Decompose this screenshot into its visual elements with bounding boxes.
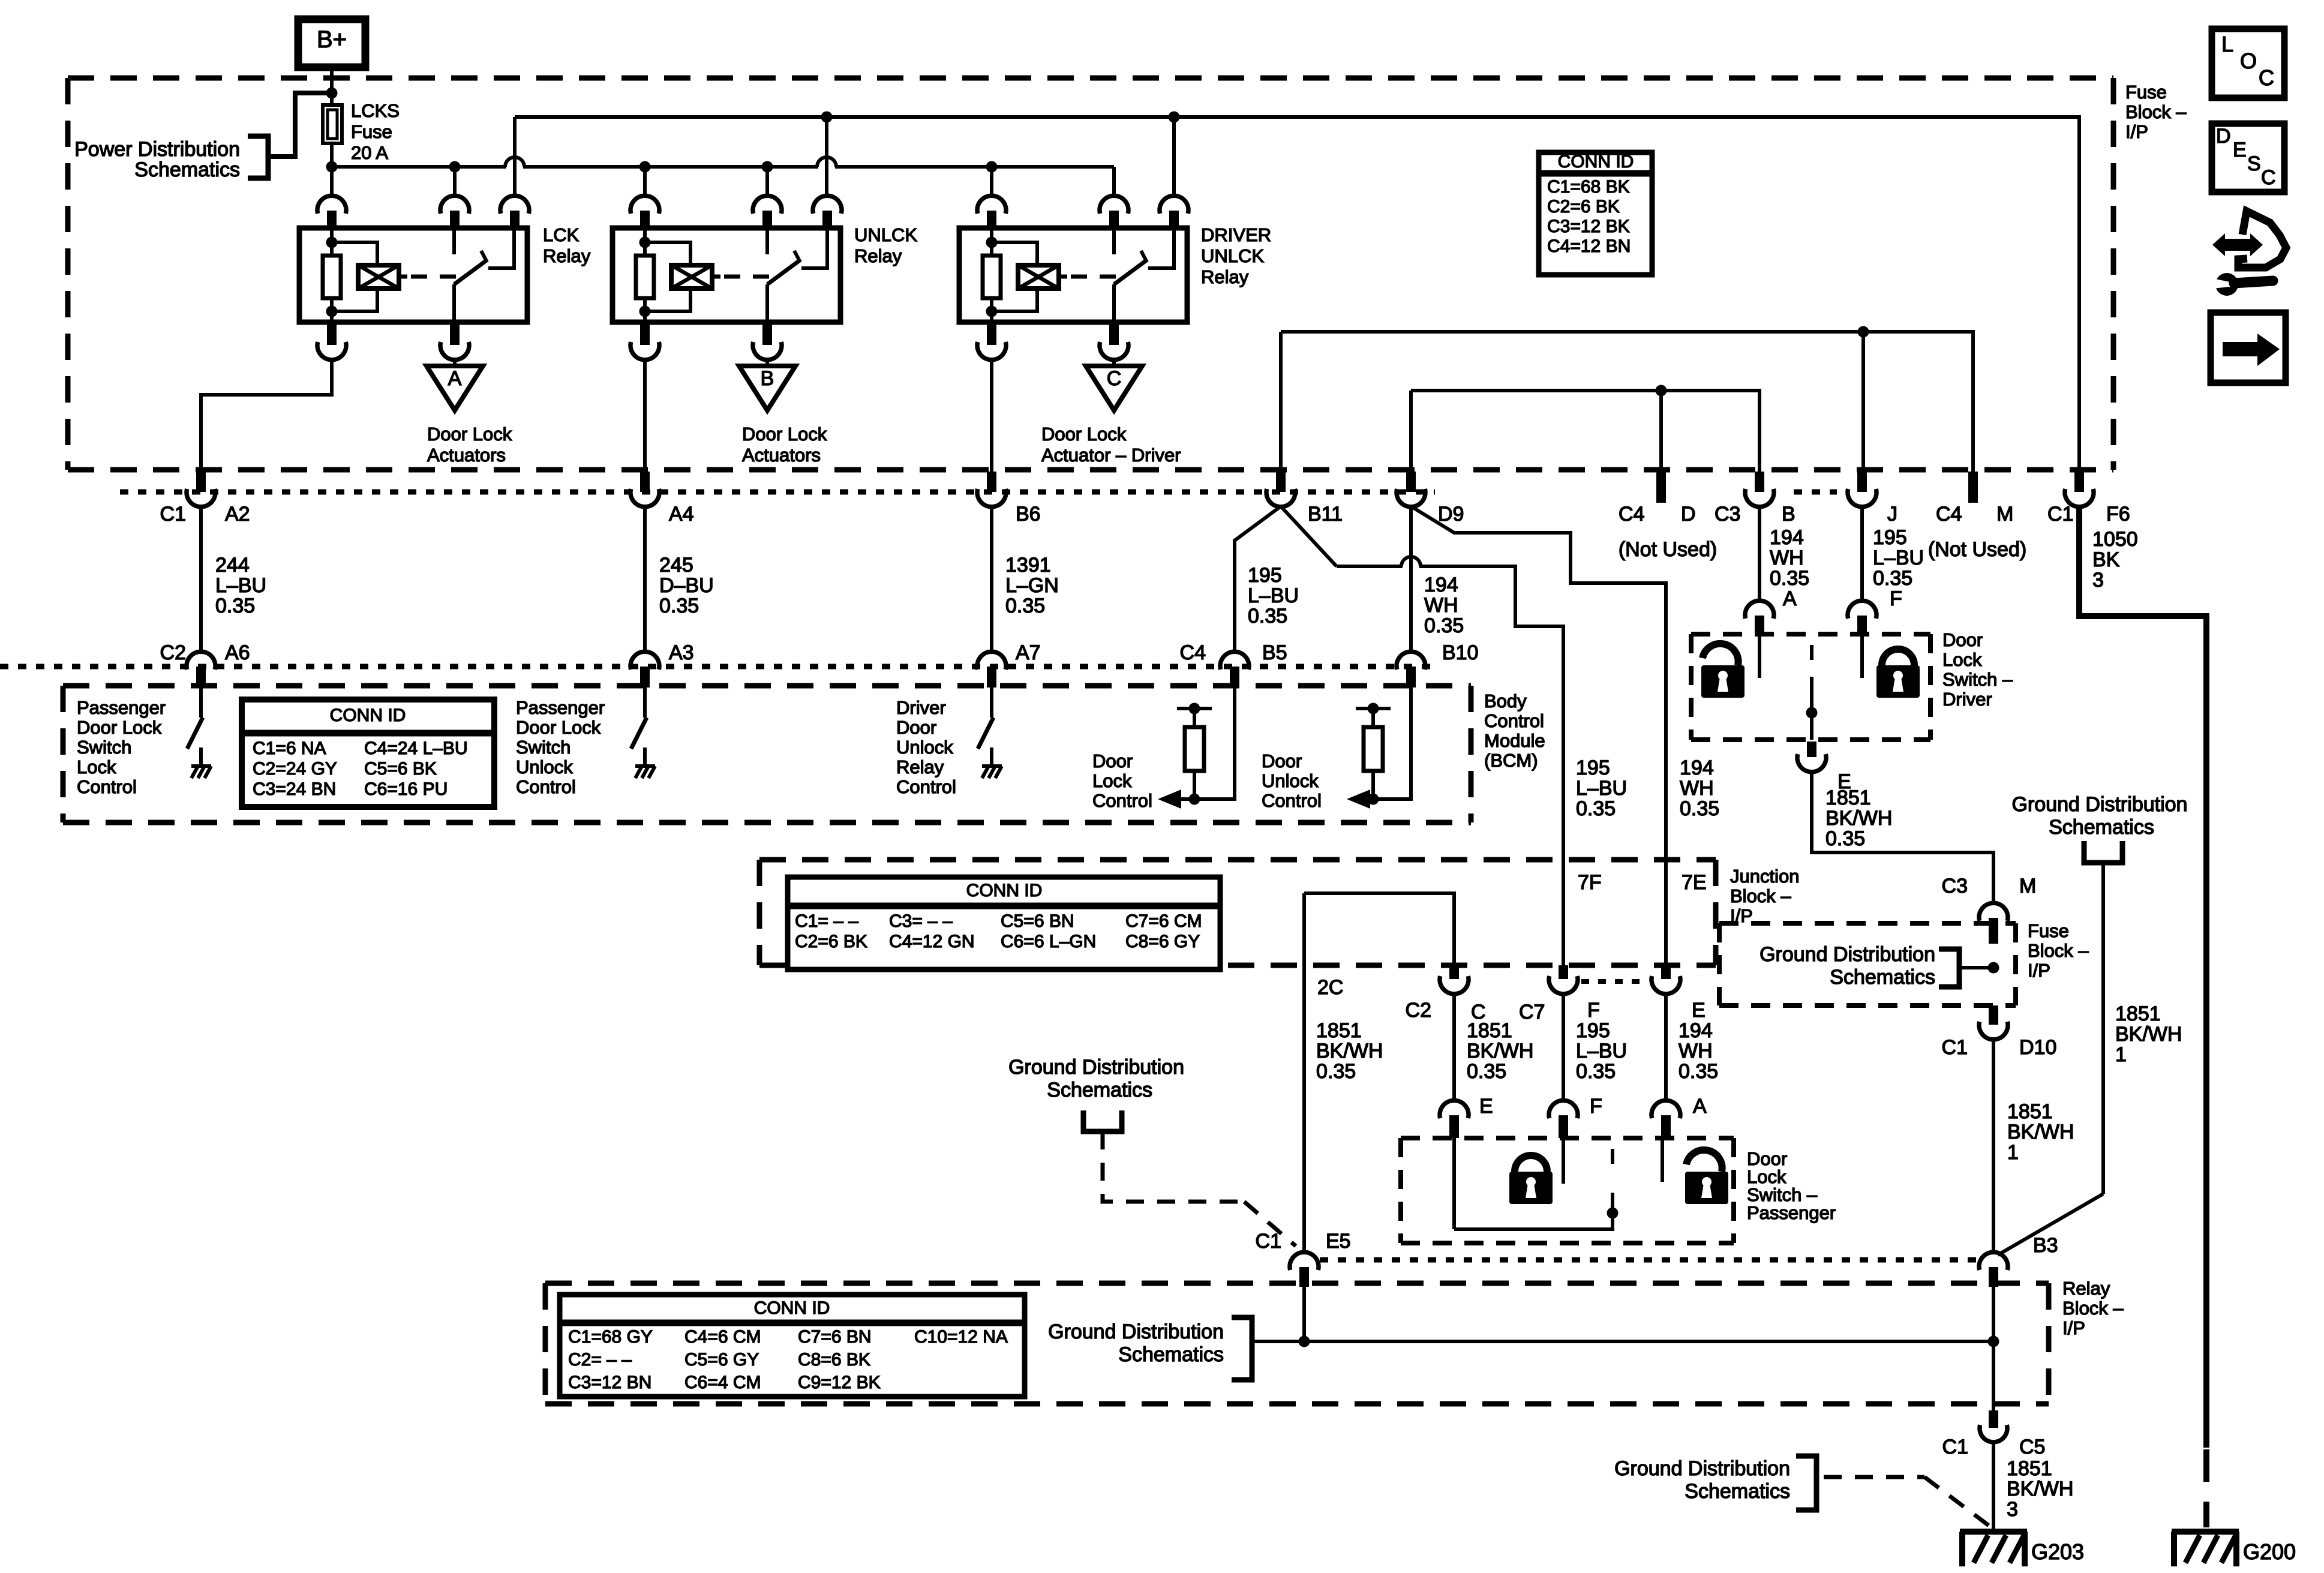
svg-text:195: 195 <box>1576 1019 1610 1042</box>
svg-text:Control: Control <box>516 776 576 797</box>
svg-text:C7=6 CM: C7=6 CM <box>1125 911 1202 931</box>
B+ battery feed terminal <box>298 19 365 67</box>
relay block internal ground bus <box>1252 1340 1993 1343</box>
Junction Block - I/P dashed box <box>759 857 1716 863</box>
connector C3 pin M <box>1979 903 2008 921</box>
svg-text:A4: A4 <box>669 503 694 526</box>
svg-text:0.35: 0.35 <box>215 595 255 617</box>
svg-text:L: L <box>2221 32 2233 56</box>
svg-text:195: 195 <box>1248 564 1282 587</box>
svg-text:C7: C7 <box>1519 1001 1545 1023</box>
BCM door unlock control output with resistor <box>1409 688 1413 799</box>
svg-text:Block –: Block – <box>1730 885 1791 906</box>
svg-text:C5=6 GY: C5=6 GY <box>684 1350 759 1370</box>
svg-text:L–BU: L–BU <box>1873 547 1924 569</box>
passenger switch connector pin F <box>1549 1100 1578 1118</box>
svg-text:C1: C1 <box>160 503 186 526</box>
svg-text:Control: Control <box>1092 790 1152 811</box>
relay mechanical linkage (dashed) <box>724 275 770 279</box>
svg-text:C9=12 BK: C9=12 BK <box>798 1373 881 1392</box>
svg-text:245: 245 <box>659 554 693 577</box>
connector pin A3 <box>630 652 659 670</box>
wire 1851 BK/WH D10 to relay block B3 <box>1992 1039 1995 1253</box>
relay mechanical linkage (dashed) <box>1071 275 1116 279</box>
wire 1851 BK/WH C2 to passenger switch E <box>1452 993 1456 1101</box>
wire B3 through relay block to C5 <box>1992 1287 1995 1410</box>
relay box LCK <box>299 228 527 322</box>
padlock icon unlocked (passenger) <box>1686 1150 1722 1172</box>
relay coil branch wiring <box>643 230 647 242</box>
svg-text:3: 3 <box>2007 1498 2018 1521</box>
wire 1050 BK F6 to G200 <box>2079 506 2206 1448</box>
dotted connector row between junction pins <box>1581 979 1649 984</box>
relay pin connectors (top row) <box>317 196 346 214</box>
connector triangle B to door lock actuators <box>765 359 769 366</box>
svg-text:UNLCK: UNLCK <box>854 224 917 245</box>
svg-text:0.35: 0.35 <box>1005 595 1045 617</box>
svg-text:C2: C2 <box>160 641 186 664</box>
svg-text:BK/WH: BK/WH <box>2007 1478 2073 1500</box>
svg-text:L–GN: L–GN <box>1005 574 1059 597</box>
wire 194 WH B to driver switch A <box>1758 506 1761 602</box>
svg-text:Passenger: Passenger <box>77 697 166 718</box>
relay coil resistor <box>643 242 647 256</box>
svg-text:Fuse: Fuse <box>351 121 392 142</box>
CONN ID table (relay block) <box>560 1295 1025 1397</box>
svg-text:BK/WH: BK/WH <box>1467 1040 1533 1062</box>
svg-text:C2= – –: C2= – – <box>568 1350 632 1370</box>
svg-text:Schematics: Schematics <box>2049 816 2154 839</box>
svg-text:244: 244 <box>215 554 250 577</box>
connector pin B with wire 194 WH <box>1755 472 1764 492</box>
svg-text:C4=12 GN: C4=12 GN <box>889 932 975 951</box>
svg-text:BK/WH: BK/WH <box>1825 807 1892 830</box>
svg-text:BK/WH: BK/WH <box>2007 1121 2074 1143</box>
svg-text:O: O <box>2240 49 2257 73</box>
svg-text:Power Distribution: Power Distribution <box>74 138 240 161</box>
svg-text:Passenger: Passenger <box>1747 1202 1836 1223</box>
icon forward-arrow box <box>2211 313 2286 383</box>
wire 195 L-BU J to driver switch F <box>1860 506 1864 602</box>
svg-text:C5=6 BK: C5=6 BK <box>364 759 437 779</box>
svg-text:A: A <box>448 367 462 390</box>
wire 1851 BK/WH 1 from ground distribution to B3 <box>2101 863 2105 1194</box>
svg-text:3: 3 <box>2092 569 2104 592</box>
svg-text:F6: F6 <box>2106 503 2130 526</box>
svg-text:(Not Used): (Not Used) <box>1619 538 1717 561</box>
svg-text:L–BU: L–BU <box>1576 1040 1627 1062</box>
svg-text:C4: C4 <box>1936 503 1962 526</box>
relay bottom pin connectors <box>327 322 337 345</box>
svg-text:Ground Distribution: Ground Distribution <box>1759 943 1935 966</box>
svg-text:CONN ID: CONN ID <box>1558 152 1634 172</box>
svg-text:UNLCK: UNLCK <box>1201 245 1264 266</box>
svg-text:Block –: Block – <box>2028 940 2089 961</box>
svg-text:J: J <box>1887 503 1897 526</box>
svg-text:M: M <box>1996 503 2013 526</box>
wire B11 branch to junction block 7F <box>1281 506 1337 566</box>
svg-text:C3=12 BK: C3=12 BK <box>1547 217 1630 236</box>
svg-text:LCKS: LCKS <box>351 100 400 121</box>
svg-text:0.35: 0.35 <box>1576 1060 1616 1083</box>
svg-text:Control: Control <box>77 776 137 797</box>
not-used stub pin M <box>1968 472 1978 503</box>
svg-text:B5: B5 <box>1262 641 1287 664</box>
wire 1851 BK/WH driver switch E to fuse block M <box>1812 772 1993 903</box>
svg-text:Ground Distribution: Ground Distribution <box>1008 1056 1184 1079</box>
connector C1 pin D10 <box>1989 1005 1998 1025</box>
svg-text:A: A <box>1693 1095 1707 1118</box>
svg-text:C4: C4 <box>1180 641 1206 664</box>
svg-text:Junction: Junction <box>1730 866 1799 887</box>
Relay Block - I/P dashed box <box>545 1281 2049 1286</box>
svg-text:Fuse: Fuse <box>2125 82 2167 103</box>
connector C1 pin E5 <box>1290 1252 1319 1270</box>
svg-text:Door Lock: Door Lock <box>742 424 827 445</box>
svg-text:Switch: Switch <box>516 737 571 758</box>
wire fused feed bus to relay coils and switch feeds <box>326 161 338 173</box>
crossover hop where relay NO-feed crosses fused bus <box>505 157 524 167</box>
svg-text:F: F <box>1587 999 1600 1022</box>
svg-text:C1= – –: C1= – – <box>795 911 858 931</box>
passenger switch connector pin A <box>1652 1100 1680 1118</box>
switch to ground: Passenger unlock switch <box>643 688 647 718</box>
svg-text:Ground Distribution: Ground Distribution <box>1048 1320 1224 1343</box>
svg-text:C1=68 GY: C1=68 GY <box>568 1327 653 1347</box>
svg-text:I/P: I/P <box>2062 1317 2085 1338</box>
wire 245 D-BU A4 to A3 <box>643 506 647 651</box>
Fuse Block - I/P dashed boundary box <box>68 76 2113 81</box>
CONN ID table (fuse block) <box>1539 152 1652 275</box>
junction block internal bus 2C to C2 <box>1304 893 1454 966</box>
svg-text:Relay: Relay <box>854 245 902 266</box>
Door Lock Switch - Passenger dashed box <box>1401 1136 1734 1140</box>
wire D9 up and across to D and B <box>1411 391 1759 472</box>
svg-text:(BCM): (BCM) <box>1484 750 1538 771</box>
Door Lock Switch - Driver dashed box <box>1691 632 1930 637</box>
wire 194 WH D9 to B10 <box>1409 506 1413 651</box>
svg-text:A7: A7 <box>1016 641 1041 664</box>
svg-text:CONN ID: CONN ID <box>330 706 406 725</box>
svg-text:WH: WH <box>1770 547 1804 569</box>
Fuse Block - I/P small dashed box <box>1719 921 2016 926</box>
svg-text:C2=6 BK: C2=6 BK <box>795 932 867 951</box>
BCM door lock control output with resistor <box>1233 688 1236 799</box>
svg-text:C1=68 BK: C1=68 BK <box>1547 177 1630 197</box>
svg-text:Relay: Relay <box>896 757 944 778</box>
svg-text:F: F <box>1590 1095 1602 1118</box>
driver switch common connector pin E <box>1807 742 1816 757</box>
svg-text:BK: BK <box>2092 548 2120 571</box>
svg-text:0.35: 0.35 <box>1248 605 1287 628</box>
svg-text:C3: C3 <box>1942 875 1968 897</box>
svg-text:0.35: 0.35 <box>1679 1060 1718 1083</box>
not-used stub pin D <box>1656 472 1666 503</box>
passenger switch internals <box>1452 1138 1456 1229</box>
svg-text:Relay: Relay <box>543 245 591 266</box>
svg-text:Module: Module <box>1484 730 1545 751</box>
dotted harness interface row (fuse block connectors) <box>120 490 1435 495</box>
connector C2 pin A6 <box>187 652 215 670</box>
svg-text:BK/WH: BK/WH <box>1316 1040 1383 1062</box>
svg-text:C6=16 PU: C6=16 PU <box>364 779 448 799</box>
svg-text:1851: 1851 <box>2007 1457 2052 1480</box>
svg-text:C6=6 L–GN: C6=6 L–GN <box>1001 932 1096 951</box>
svg-text:C2=6 BK: C2=6 BK <box>1547 197 1620 217</box>
wire 195 L-BU B11 to B5 <box>1235 506 1281 651</box>
relay coil branch wiring <box>990 230 993 242</box>
svg-text:DRIVER: DRIVER <box>1201 224 1271 245</box>
wire 1050 BK to G200 (partial dashed) <box>2203 1449 2209 1482</box>
svg-text:Ground Distribution: Ground Distribution <box>1614 1457 1790 1480</box>
svg-text:C8=6 BK: C8=6 BK <box>798 1350 870 1370</box>
icon LOC box <box>2212 29 2284 98</box>
relay switch <box>452 230 456 254</box>
svg-text:E5: E5 <box>1326 1230 1351 1253</box>
wire E5 into relay block ground bus <box>1302 1287 1306 1341</box>
svg-text:C4=12 BN: C4=12 BN <box>1547 236 1631 256</box>
svg-text:Switch: Switch <box>77 737 131 758</box>
svg-text:0.35: 0.35 <box>659 595 699 617</box>
dashed box: door lock switches / body control module <box>63 683 1471 689</box>
svg-text:Relay: Relay <box>2062 1278 2110 1299</box>
padlock icon unlocked (driver) <box>1703 644 1739 665</box>
junction dots on F6 bus <box>821 112 833 123</box>
svg-text:Unlock: Unlock <box>896 737 953 758</box>
svg-text:194: 194 <box>1424 574 1458 596</box>
svg-text:C3= – –: C3= – – <box>889 911 953 931</box>
connector pin A4 <box>640 472 650 492</box>
svg-text:A3: A3 <box>669 641 694 664</box>
svg-text:20 A: 20 A <box>351 142 388 163</box>
connector C1 pin A2 <box>196 472 206 492</box>
svg-text:D9: D9 <box>1438 503 1464 526</box>
switch to ground: Passenger lock switch <box>199 688 203 718</box>
svg-text:Door: Door <box>896 717 936 738</box>
wire 195 L-BU F to passenger switch F <box>1562 993 1565 1101</box>
svg-text:Schematics: Schematics <box>1047 1079 1152 1101</box>
ground symbol under Passenger lock switch <box>191 764 211 768</box>
connector pin B3 <box>1979 1252 2008 1270</box>
svg-text:D: D <box>1681 503 1696 526</box>
CONN ID table (junction block) <box>788 877 1220 969</box>
svg-text:E: E <box>1692 999 1706 1022</box>
svg-text:Block –: Block – <box>2062 1298 2124 1319</box>
relay switch <box>765 230 769 254</box>
svg-text:B: B <box>1782 503 1795 526</box>
svg-text:C4: C4 <box>1619 503 1644 526</box>
relay coil resistor <box>990 242 993 256</box>
ground G203 <box>1960 1529 2027 1535</box>
svg-text:Door Lock: Door Lock <box>1041 424 1127 445</box>
svg-text:D: D <box>2216 125 2231 148</box>
CONN ID table (door lock switch) <box>242 700 494 807</box>
ground symbol under Passenger unlock switch <box>635 764 655 768</box>
svg-text:B10: B10 <box>1442 641 1479 664</box>
relay coil resistor <box>330 242 334 256</box>
icon DESC box <box>2212 124 2284 192</box>
svg-text:I/P: I/P <box>2028 960 2050 981</box>
Power Distribution Schematics bracket <box>248 136 268 178</box>
connector pin A7 <box>977 652 1006 670</box>
svg-text:Actuators: Actuators <box>742 445 821 466</box>
wire drops from fused bus to relay pins <box>453 167 457 196</box>
ground G200 <box>2172 1529 2239 1535</box>
svg-text:D–BU: D–BU <box>659 574 714 597</box>
svg-text:194: 194 <box>1679 1019 1713 1042</box>
svg-text:1851: 1851 <box>1316 1019 1362 1042</box>
connector pin J with wire 195 L-BU <box>1857 472 1867 492</box>
svg-text:Switch –: Switch – <box>1942 669 2013 690</box>
relay box DRIVER <box>959 228 1187 322</box>
svg-text:C10=12 NA: C10=12 NA <box>914 1327 1008 1347</box>
dotted harness interface row (switch/BCM connectors) <box>0 664 1435 670</box>
relay coil branch wiring <box>330 230 334 242</box>
wire LCK relay coil low to A2 <box>201 359 332 472</box>
svg-text:C8=6 GY: C8=6 GY <box>1125 932 1200 951</box>
svg-text:B6: B6 <box>1016 503 1041 526</box>
relay mechanical linkage (dashed) <box>411 275 457 279</box>
svg-text:1050: 1050 <box>2092 528 2138 551</box>
svg-text:Lock: Lock <box>1942 649 1982 670</box>
svg-text:C5=6 BN: C5=6 BN <box>1001 911 1074 931</box>
svg-text:Schematics: Schematics <box>1685 1480 1790 1503</box>
svg-text:195: 195 <box>1873 526 1907 549</box>
svg-text:C3: C3 <box>1715 503 1740 526</box>
switch to ground: Driver unlock relay switch <box>990 688 993 718</box>
svg-text:B3: B3 <box>2033 1234 2058 1257</box>
connector triangle A to door lock actuators <box>453 359 457 366</box>
wire UNLCK relay coil low to A4 <box>643 359 647 472</box>
wire 1391 L-GN B6 to A7 <box>990 506 993 651</box>
svg-text:C1: C1 <box>1256 1230 1281 1253</box>
icon connector-repair (double arrow, connector outline, wrench) <box>2212 233 2263 256</box>
svg-text:Door Lock: Door Lock <box>77 717 162 738</box>
dashed wire ground distribution to G203 <box>1824 1475 1924 1479</box>
svg-text:E: E <box>1479 1095 1493 1118</box>
svg-text:Lock: Lock <box>1092 770 1132 791</box>
node at B+ branch <box>326 88 338 99</box>
svg-text:C2=24 GY: C2=24 GY <box>253 759 337 779</box>
svg-text:L–BU: L–BU <box>1576 777 1627 800</box>
svg-text:0.35: 0.35 <box>1576 797 1616 820</box>
svg-text:L–BU: L–BU <box>1248 584 1299 607</box>
svg-text:1851: 1851 <box>2115 1002 2161 1025</box>
svg-text:C3=12 BN: C3=12 BN <box>568 1373 651 1392</box>
svg-text:194: 194 <box>1770 526 1804 549</box>
svg-text:A2: A2 <box>225 503 250 526</box>
svg-text:Actuator – Driver: Actuator – Driver <box>1041 445 1181 466</box>
svg-text:0.35: 0.35 <box>1680 797 1719 820</box>
svg-text:2C: 2C <box>1317 976 1343 999</box>
crossover hop: D9-B10 wire crossing B11 branch <box>1401 557 1421 566</box>
svg-text:C2: C2 <box>1406 999 1431 1022</box>
dotted connector row at relay block <box>1320 1257 1978 1263</box>
svg-text:1851: 1851 <box>1825 786 1871 809</box>
svg-text:BK/WH: BK/WH <box>2115 1023 2182 1046</box>
svg-text:LCK: LCK <box>543 224 580 245</box>
svg-text:C5: C5 <box>2019 1436 2045 1458</box>
svg-text:194: 194 <box>1680 757 1714 779</box>
connector pin B10 <box>1397 652 1425 670</box>
svg-text:Schematics: Schematics <box>134 158 240 181</box>
driver switch internals <box>1758 636 1761 678</box>
relay switch <box>1112 230 1116 254</box>
svg-text:B11: B11 <box>1308 503 1343 526</box>
svg-text:D10: D10 <box>2019 1036 2056 1059</box>
svg-text:CONN ID: CONN ID <box>966 881 1043 900</box>
svg-text:F: F <box>1890 587 1902 610</box>
junction block pin E <box>1661 965 1671 979</box>
relay coil (box with X) <box>1018 265 1059 289</box>
relay coil (box with X) <box>358 265 399 289</box>
wire 1050 BK feed bus from fuse block F6 <box>515 117 2079 472</box>
wire 244 L-BU A2 to A6 <box>199 506 203 651</box>
driver switch connector pin A <box>1745 601 1774 619</box>
svg-text:Door Lock: Door Lock <box>516 717 601 738</box>
wire 194 WH E to passenger switch A <box>1664 993 1668 1101</box>
padlock icon locked (passenger) <box>1515 1155 1547 1172</box>
svg-text:0.35: 0.35 <box>1424 614 1464 637</box>
svg-text:C1=6 NA: C1=6 NA <box>253 739 326 758</box>
svg-text:1: 1 <box>2115 1043 2127 1066</box>
ground symbol under Driver unlock relay switch <box>982 764 1002 768</box>
relay coil (box with X) <box>671 265 712 289</box>
svg-text:0.35: 0.35 <box>1873 567 1912 590</box>
svg-text:C: C <box>1107 367 1122 390</box>
svg-text:195: 195 <box>1576 757 1610 779</box>
svg-text:Door: Door <box>1092 751 1133 772</box>
junction dots on fused bus <box>449 161 461 173</box>
svg-text:WH: WH <box>1680 777 1714 800</box>
svg-text:Unlock: Unlock <box>1262 770 1319 791</box>
svg-text:G200: G200 <box>2243 1539 2296 1564</box>
svg-text:Fuse: Fuse <box>2028 920 2069 941</box>
svg-text:7F: 7F <box>1578 871 1602 894</box>
svg-text:WH: WH <box>1679 1040 1713 1062</box>
wire drops from F6 bus to relay NO contacts <box>513 117 517 196</box>
svg-text:CONN ID: CONN ID <box>754 1298 830 1318</box>
junction block pin F <box>1559 965 1568 979</box>
svg-text:Driver: Driver <box>896 697 946 718</box>
driver switch connector pin F <box>1848 601 1876 619</box>
svg-text:Control: Control <box>1262 790 1322 811</box>
svg-text:L–BU: L–BU <box>215 574 266 597</box>
svg-text:Actuators: Actuators <box>427 445 506 466</box>
svg-text:Block –: Block – <box>2125 101 2187 122</box>
svg-text:A6: A6 <box>225 641 250 664</box>
connector pin B11 <box>1276 472 1286 492</box>
svg-text:B: B <box>761 367 774 390</box>
connector pin B6 <box>987 472 996 492</box>
passenger switch connector pin E <box>1440 1100 1469 1118</box>
wire D9 branch to junction block 7E <box>1411 506 1666 979</box>
padlock icon locked (driver) <box>1882 649 1914 665</box>
wire DRIVER UNLCK relay coil low to B6 <box>990 359 993 472</box>
fuse LCKS 20 A <box>323 105 342 143</box>
svg-text:C: C <box>2261 166 2276 189</box>
svg-text:1851: 1851 <box>1467 1019 1512 1042</box>
svg-text:1391: 1391 <box>1005 554 1051 577</box>
svg-text:0.35: 0.35 <box>1825 827 1865 850</box>
svg-text:A: A <box>1783 587 1797 610</box>
svg-text:(Not Used): (Not Used) <box>1928 538 2026 561</box>
svg-text:C1: C1 <box>2047 503 2073 526</box>
svg-text:0.35: 0.35 <box>1316 1060 1356 1083</box>
svg-text:Relay: Relay <box>1201 266 1249 287</box>
svg-text:1: 1 <box>2007 1141 2019 1164</box>
svg-text:Driver: Driver <box>1942 689 1992 710</box>
